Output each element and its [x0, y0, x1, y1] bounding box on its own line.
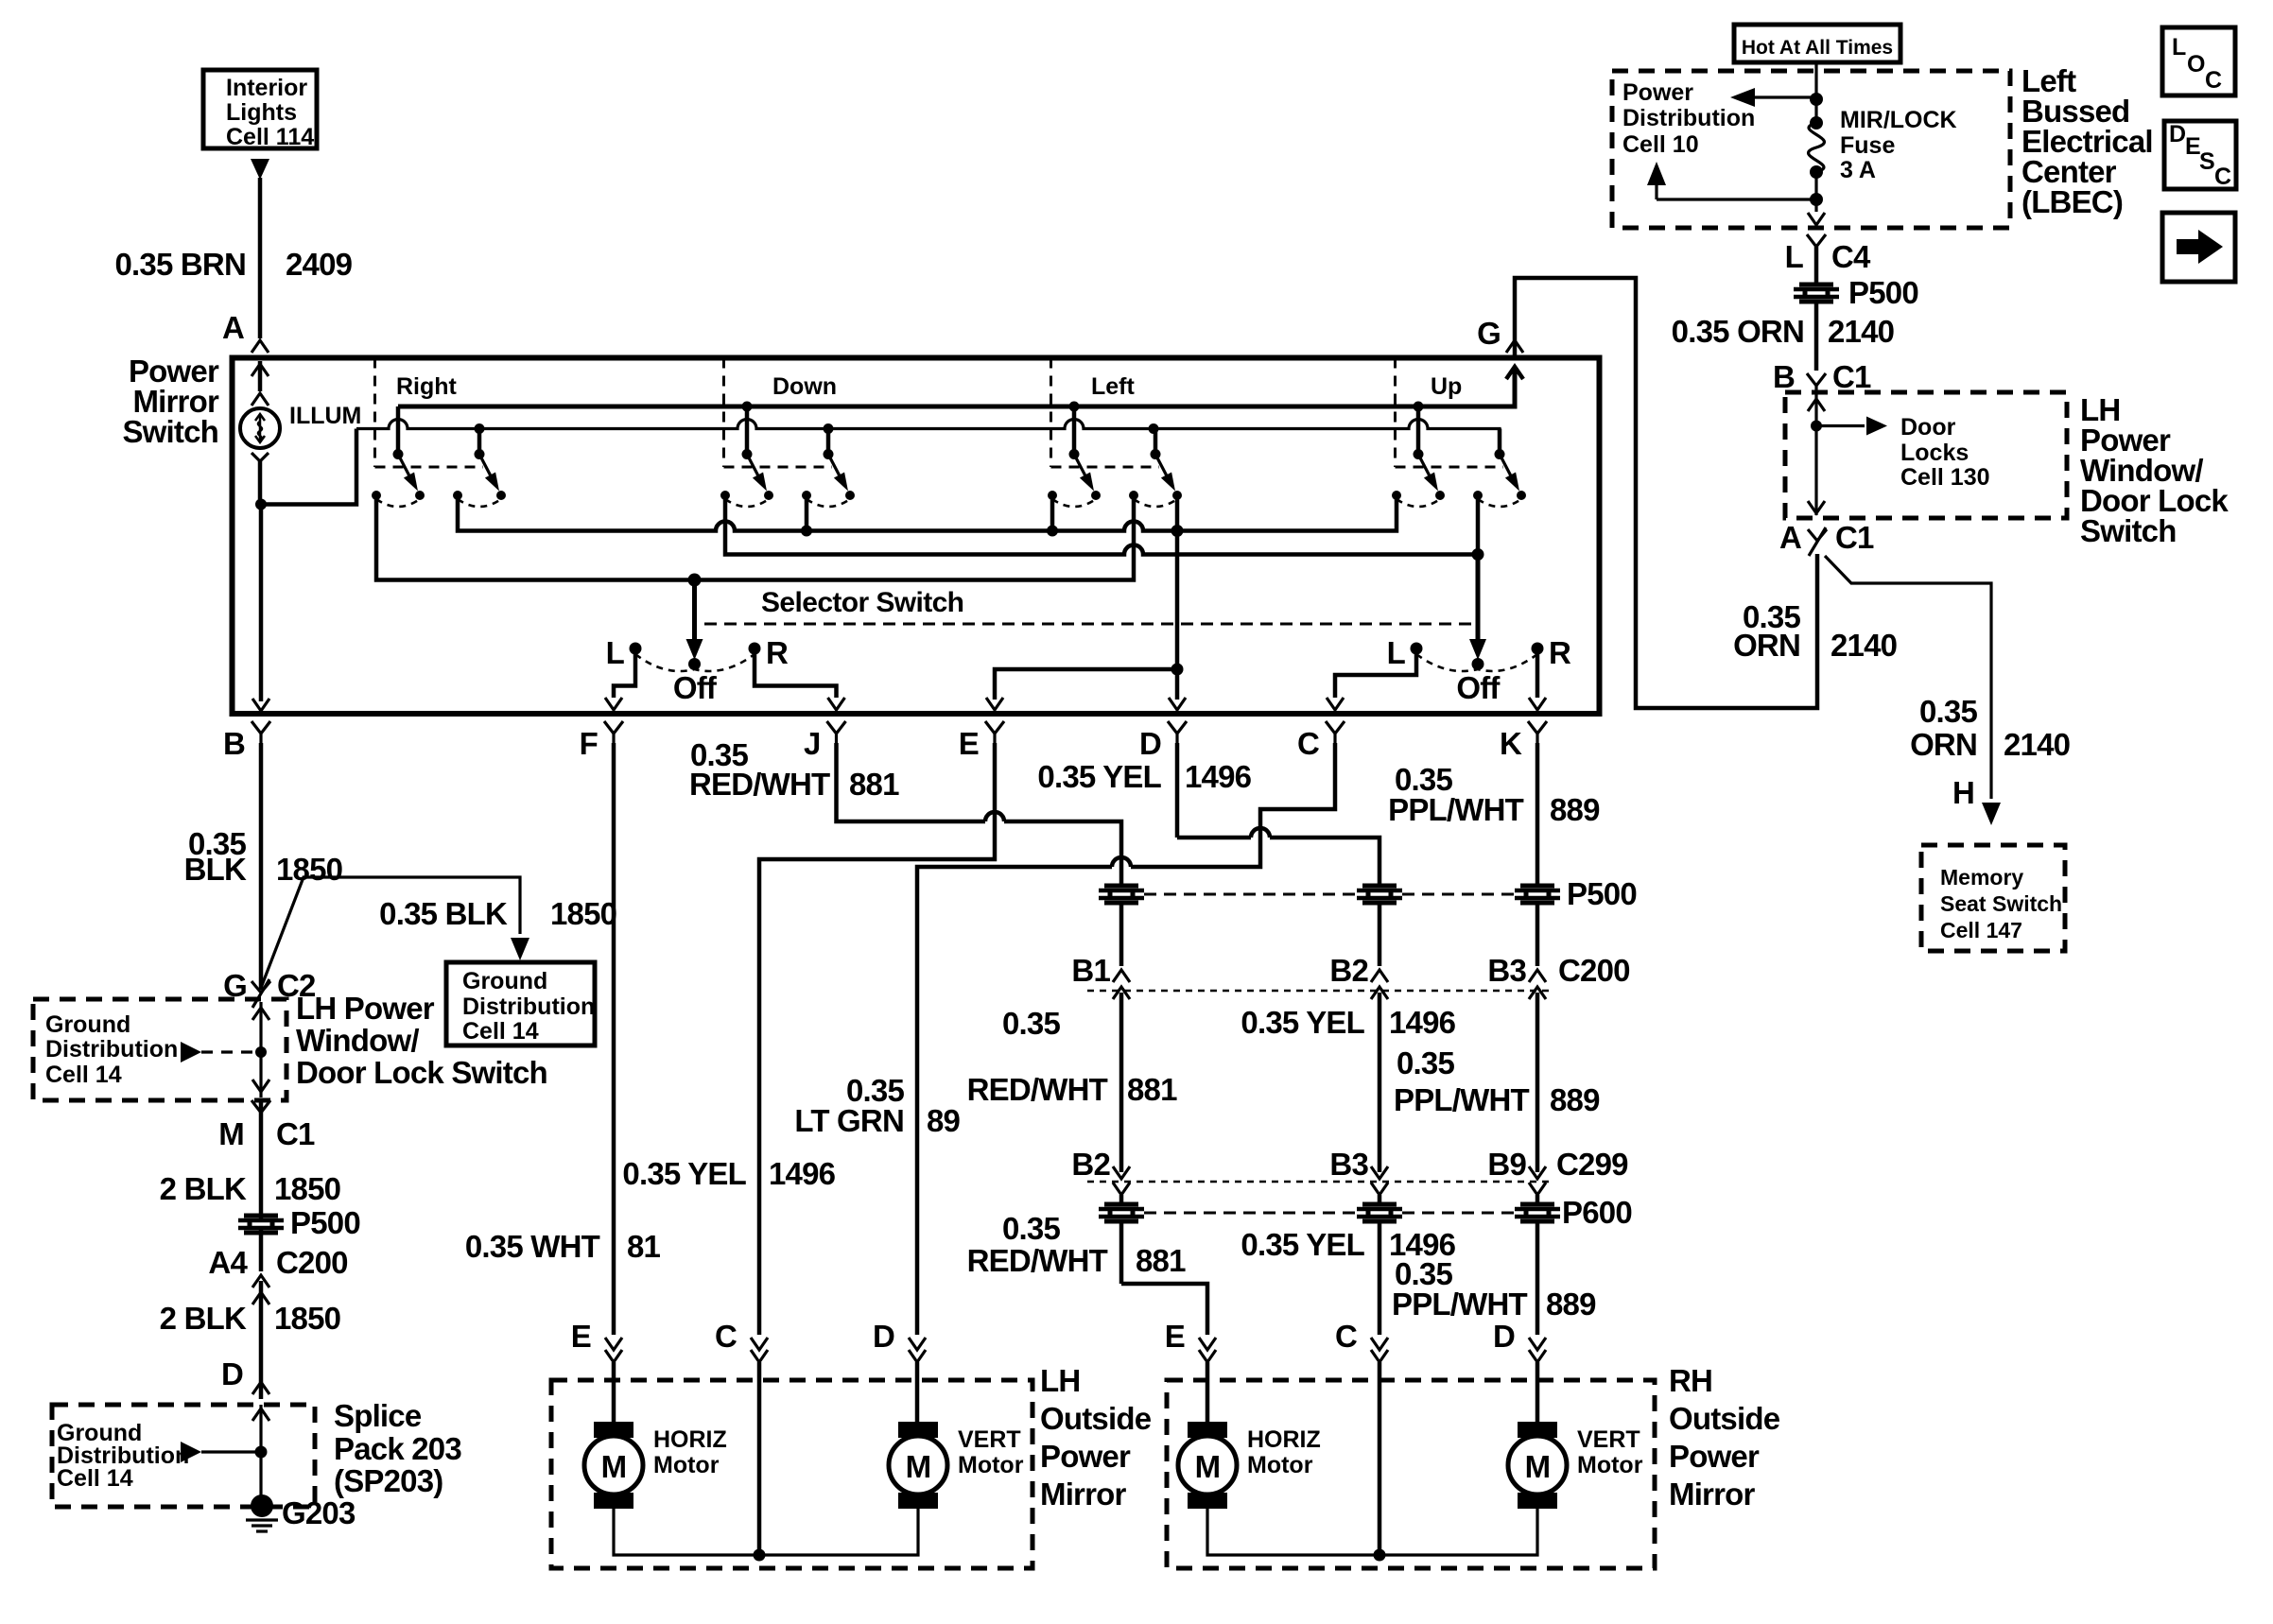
door lock switch dashed box [1785, 392, 2067, 518]
svg-text:A: A [1779, 520, 1801, 555]
DESC box [2164, 121, 2236, 189]
forward arrow box [2162, 213, 2235, 282]
svg-text:VERT: VERT [958, 1426, 1021, 1453]
svg-text:G: G [1477, 316, 1501, 351]
svg-text:Memory: Memory [1940, 865, 2023, 890]
svg-text:PPL/WHT: PPL/WHT [1394, 1082, 1530, 1117]
svg-text:2 BLK: 2 BLK [160, 1301, 247, 1336]
svg-text:L: L [2172, 34, 2186, 60]
Splice Pack dashed box [52, 1405, 315, 1507]
svg-text:Door: Door [1900, 414, 1956, 441]
svg-text:O: O [2187, 51, 2205, 78]
svg-text:R: R [1549, 635, 1571, 670]
svg-text:0.35 BLK: 0.35 BLK [379, 896, 508, 931]
svg-text:E: E [1165, 1319, 1185, 1354]
svg-text:Cell 114: Cell 114 [226, 124, 314, 150]
power distribution branch left [1755, 95, 1816, 98]
svg-text:0.35: 0.35 [1919, 694, 1977, 729]
svg-text:2409: 2409 [286, 247, 353, 282]
svg-text:(LBEC): (LBEC) [2021, 184, 2123, 219]
bus1 common bus [458, 499, 1397, 531]
svg-text:2140: 2140 [1828, 314, 1894, 349]
svg-text:F: F [580, 726, 598, 761]
svg-text:C1: C1 [1835, 520, 1874, 555]
svg-text:Cell 14: Cell 14 [45, 1062, 122, 1088]
svg-text:P500: P500 [290, 1205, 360, 1240]
svg-text:Interior: Interior [226, 75, 307, 101]
svg-text:1850: 1850 [274, 1171, 340, 1206]
svg-text:Motor: Motor [958, 1452, 1024, 1478]
svg-text:Off: Off [673, 670, 718, 705]
svg-text:HORIZ: HORIZ [653, 1426, 727, 1453]
wire 0.35 BRN 2409 [258, 178, 263, 338]
P500 connector right [1799, 283, 1833, 287]
svg-text:Distribution: Distribution [1622, 105, 1755, 131]
Memory Seat Switch box [1921, 845, 2065, 951]
Power Mirror Switch box [233, 358, 1600, 715]
svg-text:L: L [1387, 635, 1406, 670]
svg-text:M: M [1195, 1449, 1221, 1484]
svg-text:Window/: Window/ [296, 1023, 419, 1058]
svg-text:Power: Power [1669, 1439, 1760, 1474]
svg-text:889: 889 [1550, 1082, 1600, 1117]
svg-text:B: B [1773, 359, 1795, 394]
svg-text:A4: A4 [208, 1245, 248, 1280]
svg-text:889: 889 [1546, 1287, 1596, 1322]
svg-text:Switch: Switch [122, 414, 218, 449]
svg-text:B3: B3 [1487, 953, 1526, 988]
svg-text:M: M [218, 1116, 244, 1151]
ILLUM lamp [258, 361, 263, 391]
rail2 (illum bus) [356, 420, 1500, 455]
svg-text:Motor: Motor [1577, 1452, 1643, 1478]
svg-text:Locks: Locks [1900, 440, 1969, 466]
svg-text:881: 881 [1136, 1243, 1186, 1278]
arrow from Interior Lights [251, 159, 269, 180]
svg-text:LH Power: LH Power [296, 991, 435, 1026]
svg-text:Up: Up [1431, 373, 1462, 400]
svg-text:ORN: ORN [1733, 628, 1800, 663]
C wire LT GRN 89 [917, 743, 1335, 1335]
bus2 to selector 1 [376, 499, 1134, 580]
selector boundary dashed [704, 623, 1471, 626]
svg-text:Fuse: Fuse [1840, 132, 1895, 159]
svg-text:B1: B1 [1071, 953, 1110, 988]
fuse feed wire [1814, 62, 1817, 121]
svg-text:Mirror: Mirror [1669, 1477, 1756, 1512]
svg-text:MIR/LOCK: MIR/LOCK [1840, 107, 1957, 133]
svg-text:Outside: Outside [1669, 1401, 1780, 1436]
svg-text:(SP203): (SP203) [334, 1463, 442, 1498]
svg-text:K: K [1500, 726, 1522, 761]
svg-text:M: M [601, 1449, 627, 1484]
rail1 (upper bus) [398, 367, 1515, 406]
ground G203 [251, 1494, 273, 1517]
svg-text:Motor: Motor [653, 1452, 720, 1478]
svg-text:LT GRN: LT GRN [794, 1103, 904, 1138]
svg-text:Down: Down [772, 373, 837, 400]
svg-text:3 A: 3 A [1840, 157, 1876, 183]
svg-text:C299: C299 [1556, 1147, 1628, 1182]
RH VERT motor [1518, 1422, 1557, 1438]
svg-text:D: D [1493, 1319, 1515, 1354]
svg-text:RH: RH [1669, 1363, 1712, 1398]
Interior Lights Cell 114 box [203, 70, 317, 148]
svg-text:2 BLK: 2 BLK [160, 1171, 247, 1206]
svg-text:Distribution: Distribution [45, 1036, 178, 1063]
svg-text:Distribution: Distribution [462, 993, 595, 1020]
LH mirror common rail [614, 1509, 918, 1555]
Hot At All Times box [1734, 25, 1900, 62]
LH Outside Power Mirror box [551, 1380, 1032, 1568]
svg-text:0.35: 0.35 [1002, 1006, 1060, 1041]
selector switch right set [1476, 555, 1481, 640]
svg-text:ORN: ORN [1910, 727, 1977, 762]
D-E common bridge [995, 669, 1177, 700]
svg-text:0.35 YEL: 0.35 YEL [1037, 759, 1161, 794]
svg-text:A: A [222, 310, 244, 345]
svg-text:C: C [1297, 726, 1319, 761]
svg-text:Cell 147: Cell 147 [1940, 918, 2022, 942]
svg-text:Left: Left [1091, 373, 1136, 400]
LOC box [2162, 27, 2235, 95]
svg-text:Motor: Motor [1247, 1452, 1313, 1478]
svg-text:Power: Power [1040, 1439, 1131, 1474]
svg-text:PPL/WHT: PPL/WHT [1388, 792, 1524, 827]
svg-text:0.35: 0.35 [1002, 1211, 1060, 1246]
svg-text:S: S [2199, 148, 2215, 175]
LH Power Window/Door Lock Switch dashed box (left) [33, 999, 286, 1100]
Ground Distribution Cell 14 solid box [446, 962, 595, 1045]
svg-text:C200: C200 [276, 1245, 348, 1280]
svg-text:Seat Switch: Seat Switch [1940, 891, 2062, 916]
svg-text:0.35: 0.35 [1397, 1045, 1454, 1080]
svg-text:B: B [223, 726, 245, 761]
svg-text:RED/WHT: RED/WHT [967, 1243, 1108, 1278]
P500 dashed row [1144, 893, 1357, 896]
svg-text:0.35 YEL: 0.35 YEL [1241, 1227, 1364, 1262]
F wire 0.35 WHT 81 [612, 743, 616, 1335]
terminals B F J E D C K [252, 721, 270, 743]
ILLUM wire down to B [259, 505, 264, 702]
Down-A line to selector 2 [725, 499, 1478, 555]
svg-text:L: L [606, 635, 625, 670]
splice P500 [244, 1214, 278, 1218]
svg-text:P500: P500 [1567, 876, 1637, 911]
svg-text:ILLUM: ILLUM [289, 403, 361, 429]
svg-text:E: E [959, 726, 979, 761]
svg-text:L: L [1785, 239, 1804, 274]
svg-text:P500: P500 [1848, 275, 1918, 310]
svg-text:Cell 10: Cell 10 [1622, 131, 1699, 158]
wire G around box to A C1 [1418, 405, 1515, 409]
svg-text:HORIZ: HORIZ [1247, 1426, 1321, 1453]
svg-text:C200: C200 [1558, 953, 1630, 988]
svg-text:RED/WHT: RED/WHT [967, 1072, 1108, 1107]
MIR/LOCK fuse [1810, 116, 1823, 130]
svg-text:D: D [221, 1356, 243, 1391]
svg-text:C: C [715, 1319, 737, 1354]
Down mirror-direction switch cell [722, 358, 725, 468]
internal wire through left switch [259, 1002, 262, 1097]
svg-text:D: D [2169, 121, 2186, 147]
svg-text:Door Lock Switch: Door Lock Switch [296, 1055, 547, 1090]
svg-text:C4: C4 [1831, 239, 1871, 274]
svg-text:81: 81 [627, 1229, 661, 1264]
svg-text:G203: G203 [282, 1495, 356, 1530]
svg-text:J: J [804, 726, 821, 761]
svg-text:Cell 130: Cell 130 [1900, 464, 1990, 491]
wire to rail2 [261, 429, 356, 505]
svg-text:Ground: Ground [45, 1011, 130, 1038]
leader to ground distribution box [261, 877, 520, 988]
svg-text:H: H [1952, 775, 1974, 810]
E wire YEL 1496 LH [759, 743, 995, 1335]
svg-text:Off: Off [1456, 670, 1501, 705]
svg-text:D: D [873, 1319, 894, 1354]
svg-text:RED/WHT: RED/WHT [689, 767, 830, 802]
svg-text:0.35 YEL: 0.35 YEL [1241, 1005, 1364, 1040]
Right mirror-direction switch cell [373, 358, 376, 468]
door locks reference arrow [1816, 424, 1865, 427]
svg-text:1496: 1496 [1389, 1005, 1456, 1040]
RH HORIZ motor [1188, 1422, 1227, 1438]
svg-text:B3: B3 [1329, 1147, 1368, 1182]
svg-text:0.35 WHT: 0.35 WHT [465, 1229, 600, 1264]
svg-text:E: E [571, 1319, 591, 1354]
svg-text:M: M [906, 1449, 931, 1484]
svg-text:M: M [1525, 1449, 1551, 1484]
svg-text:881: 881 [849, 767, 899, 802]
P600 dashed row [1144, 1212, 1357, 1215]
svg-text:0.35 YEL: 0.35 YEL [622, 1156, 746, 1191]
H wire to memory seat switch [1825, 556, 1991, 799]
svg-text:Outside: Outside [1040, 1401, 1152, 1436]
svg-text:0.35 BRN: 0.35 BRN [115, 247, 247, 282]
svg-text:C1: C1 [1832, 359, 1871, 394]
svg-text:PPL/WHT: PPL/WHT [1392, 1287, 1528, 1322]
svg-text:Ground: Ground [462, 968, 547, 994]
Up mirror-direction switch cell [1394, 358, 1397, 468]
svg-text:1850: 1850 [276, 852, 342, 887]
C299 dashed row [1087, 1181, 1549, 1183]
svg-text:1496: 1496 [1185, 759, 1252, 794]
svg-text:BLK: BLK [184, 852, 247, 887]
P500 row left lens [1104, 884, 1138, 889]
svg-text:D: D [1139, 726, 1161, 761]
svg-text:P600: P600 [1562, 1195, 1632, 1230]
svg-text:1850: 1850 [550, 896, 616, 931]
svg-text:LH: LH [1040, 1363, 1080, 1398]
LBEC dashed box [1612, 71, 2010, 228]
svg-text:2140: 2140 [2004, 727, 2070, 762]
svg-text:C: C [2214, 164, 2231, 190]
svg-text:Mirror: Mirror [1040, 1477, 1127, 1512]
svg-text:Cell 14: Cell 14 [462, 1018, 539, 1045]
junction dot ILLUM [255, 499, 267, 510]
svg-text:889: 889 [1550, 792, 1600, 827]
LH VERT motor [898, 1422, 938, 1438]
svg-text:0.35 ORN: 0.35 ORN [1672, 314, 1804, 349]
svg-text:Cell 14: Cell 14 [57, 1465, 133, 1492]
L C4 connector [1807, 234, 1826, 256]
svg-text:C1: C1 [276, 1116, 315, 1151]
svg-text:1496: 1496 [769, 1156, 836, 1191]
RH Outside Power Mirror box [1167, 1380, 1655, 1568]
RH mirror common rail [1207, 1509, 1537, 1555]
svg-text:Right: Right [396, 373, 458, 400]
svg-text:B2: B2 [1329, 953, 1368, 988]
svg-text:Pack 203: Pack 203 [334, 1431, 461, 1466]
svg-text:Splice: Splice [334, 1398, 422, 1433]
C200 dashed row [1087, 990, 1551, 993]
svg-text:Selector Switch: Selector Switch [761, 587, 963, 618]
B wire labels [259, 743, 264, 990]
svg-text:Hot At All Times: Hot At All Times [1742, 37, 1893, 59]
svg-text:881: 881 [1127, 1072, 1177, 1107]
Left cell D/E feed [1175, 499, 1180, 669]
svg-text:Switch: Switch [2080, 513, 2177, 548]
branch to cell 10 arrow up [1657, 198, 1816, 200]
svg-text:VERT: VERT [1577, 1426, 1640, 1453]
svg-text:R: R [766, 635, 789, 670]
svg-text:Power: Power [1622, 79, 1693, 106]
svg-text:2140: 2140 [1831, 628, 1897, 663]
LH HORIZ motor [594, 1422, 633, 1438]
svg-text:B9: B9 [1487, 1147, 1526, 1182]
svg-text:C: C [1335, 1319, 1357, 1354]
svg-text:89: 89 [927, 1103, 961, 1138]
svg-text:C: C [2205, 67, 2222, 94]
selector switch left set [692, 580, 697, 640]
svg-text:B2: B2 [1071, 1147, 1110, 1182]
svg-text:1850: 1850 [274, 1301, 340, 1336]
svg-text:Lights: Lights [226, 99, 297, 126]
Left mirror-direction switch cell [1050, 358, 1052, 468]
